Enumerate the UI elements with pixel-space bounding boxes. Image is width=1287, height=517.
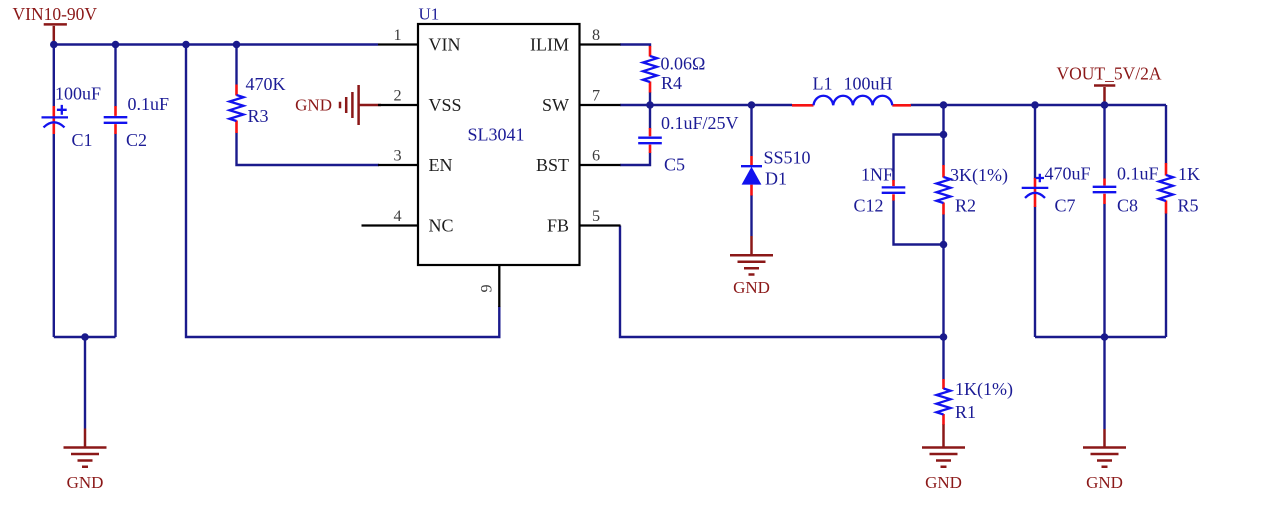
node SW-D1 junction	[748, 101, 756, 109]
power flag VIN	[13, 4, 98, 45]
svg-text:7: 7	[592, 87, 600, 105]
svg-text:9: 9	[478, 284, 496, 292]
node C2 junction	[112, 41, 120, 49]
ground at VSS pin	[295, 85, 381, 125]
svg-text:SW: SW	[542, 95, 569, 115]
svg-text:C8: C8	[1117, 196, 1138, 216]
svg-text:D1: D1	[765, 169, 787, 189]
wire top input rail	[54, 43, 378, 45]
svg-text:6: 6	[592, 147, 600, 165]
svg-text:5: 5	[592, 207, 600, 225]
node FB-R1 junction	[940, 333, 948, 341]
wire C2 bottom lead	[114, 134, 116, 337]
pin 8 ILIM	[530, 26, 621, 55]
svg-text:0.1uF: 0.1uF	[1117, 164, 1159, 184]
inductor L1	[792, 74, 911, 106]
node branch junction	[182, 41, 190, 49]
pin 4 NC	[362, 207, 454, 236]
wire C12 loop top	[894, 135, 944, 181]
svg-text:C2: C2	[126, 130, 147, 150]
svg-text:C12: C12	[854, 196, 884, 216]
node C7 junction	[1031, 101, 1039, 109]
svg-text:100uH: 100uH	[844, 74, 893, 94]
capacitor C7	[1022, 164, 1091, 216]
capacitor C12	[854, 165, 906, 216]
wire C1 bottom lead	[53, 134, 55, 337]
wire R3 bottom lead to EN pin	[237, 133, 380, 166]
resistor R2	[937, 165, 1008, 216]
wire left ground stem	[84, 337, 86, 429]
node VIN junction	[50, 41, 58, 49]
svg-text:1: 1	[393, 26, 401, 44]
wire R4 bottom to SW node	[649, 92, 651, 106]
wire D1 top lead	[750, 105, 752, 156]
wire R3 top lead	[235, 45, 237, 85]
svg-text:GND: GND	[295, 96, 332, 115]
wire C5 top lead	[649, 105, 651, 129]
svg-text:1NF: 1NF	[861, 165, 893, 185]
svg-text:C5: C5	[664, 155, 685, 175]
svg-text:100uF: 100uF	[55, 84, 101, 104]
wire C5 bottom lead to BST pin	[620, 152, 650, 165]
svg-text:GND: GND	[925, 473, 962, 492]
ground below D1	[730, 236, 773, 297]
pin 6 BST	[536, 147, 621, 176]
svg-text:FB: FB	[547, 216, 569, 236]
svg-text:BST: BST	[536, 155, 569, 175]
svg-text:L1: L1	[813, 74, 833, 94]
node C12 bottom junction	[940, 241, 948, 249]
wire R1 top lead	[942, 337, 944, 380]
wire FB net	[620, 226, 944, 338]
node right ground junction	[1101, 333, 1109, 341]
capacitor C5	[638, 113, 738, 175]
wire SW rail	[620, 104, 792, 106]
svg-text:0.06Ω: 0.06Ω	[661, 54, 706, 74]
wire R5 bottom lead	[1165, 213, 1167, 337]
node C8-VOUT junction	[1101, 101, 1109, 109]
pin 9 exposed pad	[478, 265, 500, 307]
svg-text:R4: R4	[661, 73, 682, 93]
capacitor C2	[104, 94, 169, 150]
svg-text:1K(1%): 1K(1%)	[955, 379, 1013, 400]
ground below R1	[922, 425, 965, 493]
svg-text:8: 8	[592, 26, 600, 44]
wire C1 top lead	[53, 45, 55, 107]
svg-text:VIN: VIN	[429, 35, 461, 55]
svg-text:EN: EN	[429, 155, 453, 175]
node C12 top junction	[940, 131, 948, 139]
svg-text:VIN10-90V: VIN10-90V	[13, 4, 98, 24]
svg-text:R5: R5	[1178, 196, 1199, 216]
pin 2 VSS	[378, 87, 462, 116]
svg-text:VOUT_5V/2A: VOUT_5V/2A	[1057, 64, 1162, 84]
node SW-R4 junction	[646, 101, 654, 109]
svg-text:GND: GND	[67, 473, 104, 492]
pin 1 VIN	[378, 26, 461, 55]
wire R2 bottom lead	[942, 214, 944, 337]
pin 7 SW	[542, 87, 621, 116]
svg-text:2: 2	[393, 87, 401, 105]
svg-text:ILIM: ILIM	[530, 35, 569, 55]
wire C8 top lead	[1103, 105, 1105, 179]
node VOUT-L1 junction	[940, 101, 948, 109]
wire C7 bottom lead	[1034, 207, 1036, 338]
svg-text:0.1uF/25V: 0.1uF/25V	[661, 113, 739, 133]
svg-text:SL3041: SL3041	[467, 125, 524, 145]
svg-text:GND: GND	[733, 278, 770, 297]
svg-text:R1: R1	[955, 402, 976, 422]
wire C8 bottom lead	[1103, 204, 1105, 337]
wire C12 loop bottom	[894, 200, 944, 245]
wire EN-net vertical branch to pin9	[186, 45, 499, 338]
resistor R3	[230, 74, 286, 133]
svg-text:SS510: SS510	[764, 148, 811, 168]
wire C7 top lead	[1034, 105, 1036, 179]
svg-text:VSS: VSS	[429, 95, 462, 115]
wire bottom-right output rail	[1035, 336, 1166, 338]
wire R5 top lead	[1165, 105, 1167, 164]
svg-text:C1: C1	[72, 130, 93, 150]
resistor R5	[1159, 163, 1200, 216]
wire right ground stem	[1103, 337, 1105, 429]
svg-text:C7: C7	[1055, 196, 1076, 216]
power flag VOUT	[1057, 64, 1162, 106]
svg-text:3: 3	[393, 147, 401, 165]
wire bottom-left link C1-C2	[54, 336, 116, 338]
svg-text:1K: 1K	[1178, 164, 1200, 184]
svg-text:NC: NC	[429, 216, 454, 236]
op-amp U1 SL3041 body	[418, 5, 580, 266]
svg-text:GND: GND	[1086, 473, 1123, 492]
svg-text:0.1uF: 0.1uF	[128, 94, 170, 114]
ground below C1/C2	[64, 429, 107, 493]
diode D1	[741, 148, 811, 196]
node R3 junction	[233, 41, 241, 49]
svg-text:R2: R2	[955, 196, 976, 216]
wire ILIM to R4	[620, 44, 651, 47]
wire C2 top lead	[114, 45, 116, 107]
svg-text:470uF: 470uF	[1045, 164, 1091, 184]
pin 3 EN	[378, 147, 453, 176]
wire R2 branch top	[942, 105, 944, 166]
svg-text:R3: R3	[248, 106, 269, 126]
wire SW rail after L1	[911, 104, 1167, 106]
svg-text:U1: U1	[419, 5, 440, 24]
svg-text:4: 4	[393, 207, 401, 225]
svg-text:3K(1%): 3K(1%)	[950, 165, 1008, 186]
resistor R4	[643, 46, 705, 93]
svg-text:470K: 470K	[246, 74, 286, 94]
resistor R1	[937, 379, 1013, 425]
capacitor C8	[1093, 164, 1159, 216]
node left ground junction	[81, 333, 89, 341]
wire D1 bottom lead	[750, 195, 752, 236]
capacitor C1	[42, 84, 102, 151]
ground below C8 rail	[1083, 429, 1126, 492]
pin 5 FB	[547, 207, 621, 236]
